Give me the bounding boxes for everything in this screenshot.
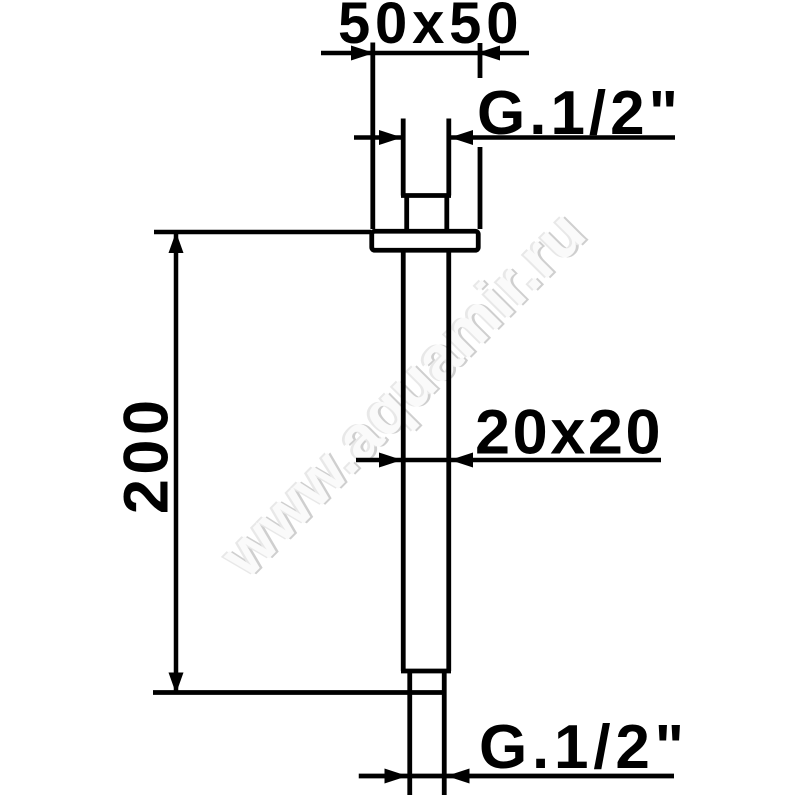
200 dimension vertical line bbox=[174, 232, 179, 694]
bottom thread left line bbox=[407, 671, 412, 795]
flange 50x50 bbox=[372, 231, 479, 250]
arm tube right line bbox=[446, 253, 451, 672]
arrow pointing right at bottom thread left bbox=[385, 769, 408, 784]
arrow up bbox=[169, 232, 184, 253]
arrow pointing right at thread left bbox=[379, 130, 402, 145]
top thread tube right line bbox=[446, 119, 451, 196]
watermark www.aquamir.ru bbox=[204, 194, 601, 593]
200 bottom extension line (crosses tube) bbox=[153, 690, 447, 695]
top thread tube left line bbox=[401, 119, 406, 196]
neck left line bbox=[404, 196, 409, 232]
bottom G.1/2 dimension line bbox=[359, 774, 674, 779]
top G.1/2 dimension right segment bbox=[450, 135, 675, 140]
bottom thread right line bbox=[442, 671, 447, 795]
top G.1/2 dimension left segment bbox=[354, 135, 401, 140]
arrow pointing left at thread right bbox=[450, 130, 473, 145]
arrow pointing left at bottom thread right bbox=[447, 769, 470, 784]
arrow pointing left at tube right bbox=[450, 453, 473, 468]
extension line right lower bbox=[478, 147, 483, 229]
svg-text:20x20: 20x20 bbox=[475, 398, 663, 468]
20x20 dimension line bbox=[356, 458, 661, 463]
svg-text:200: 200 bbox=[111, 395, 181, 514]
arm tube left line bbox=[401, 253, 406, 672]
arm tube bottom cap bbox=[401, 669, 451, 674]
svg-text:G.1/2": G.1/2" bbox=[479, 713, 689, 782]
svg-text:50x50: 50x50 bbox=[338, 0, 523, 56]
arrow pointing right at tube left bbox=[379, 453, 402, 468]
thread step line bbox=[401, 193, 451, 198]
neck right line bbox=[444, 196, 449, 232]
dimension 50x50 line bbox=[321, 51, 529, 56]
svg-text:G.1/2": G.1/2" bbox=[477, 79, 682, 148]
arrow right of 50x50 bbox=[477, 46, 500, 61]
arrow left of 50x50 bbox=[351, 46, 374, 61]
extension line right upper (x=480) bbox=[478, 43, 483, 78]
extension line left (x=372.8) bbox=[370, 43, 375, 230]
200 top extension line bbox=[154, 230, 371, 235]
arrow down bbox=[169, 673, 184, 694]
